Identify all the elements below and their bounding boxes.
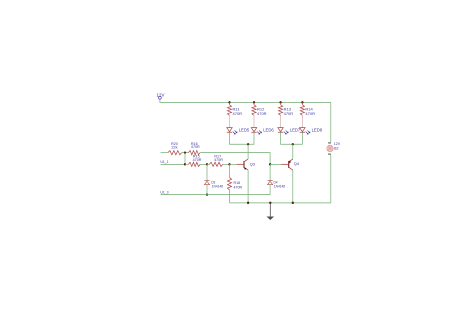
wire rail to resistor R13 (280, 102, 282, 104)
wire pair tap down to Q4 collector (292, 144, 294, 159)
node D3 top junction (206, 163, 208, 165)
svg-text:B2: B2 (334, 146, 338, 150)
node R20/R16/vertical junction (184, 151, 186, 153)
wire vertical joining row1 and row2 (184, 153, 186, 165)
svg-text:470R: 470R (193, 158, 202, 162)
svg-text:470R: 470R (305, 111, 315, 116)
node Q4 emitter on bottom rail (292, 202, 294, 204)
svg-text:470R: 470R (191, 145, 200, 149)
svg-text:LED5: LED5 (239, 128, 250, 133)
wire R18 node to Q3 base (230, 163, 237, 165)
LED LED7 (278, 128, 301, 134)
svg-text:1N4148: 1N4148 (212, 185, 223, 189)
wire resistor R13 to LED7 (280, 115, 282, 127)
node +12V rail junction at R11 (228, 101, 230, 103)
svg-text:1N4148: 1N4148 (274, 184, 285, 188)
resistor R17 470R (209, 155, 223, 167)
resistor R13 470R (279, 105, 294, 116)
net U1_1 row1 stub (161, 152, 168, 154)
node +12V rail junction at R13 (279, 101, 281, 103)
resistor R12 470R (252, 105, 267, 116)
wire from lamp B2 to bottom rail (330, 155, 332, 203)
wire from +12V rail to lamp B2 (330, 102, 332, 142)
wire D3 anode to U1_3 row (206, 184, 208, 194)
wire +12V top rail (160, 101, 331, 103)
svg-text:470R: 470R (214, 158, 223, 162)
resistor R15 470R (188, 155, 201, 167)
svg-text:U1_1: U1_1 (160, 160, 168, 164)
svg-text:Q3: Q3 (250, 161, 256, 166)
wire R16 to Q4 base node (200, 153, 270, 165)
wire LED7/LED8 cathodes to Q4 collector (281, 132, 303, 144)
svg-text:LED7: LED7 (290, 128, 301, 133)
svg-text:LED8: LED8 (312, 128, 323, 133)
node D3 on U1_3 row (206, 193, 208, 195)
ground symbol (267, 203, 275, 220)
svg-text:470R: 470R (257, 111, 267, 116)
lamp B2 12V (327, 142, 341, 154)
power supply +12V symbol (157, 92, 165, 102)
wire Q4 emitter to bottom rail (292, 170, 294, 203)
wire rail to resistor R11 (229, 102, 231, 104)
svg-text:Q4: Q4 (294, 161, 300, 166)
LED LED8 (300, 128, 323, 134)
wire pair tap down to Q3 collector (247, 144, 249, 159)
resistor R18 470R (227, 177, 242, 190)
wire D3 node to R17 (207, 163, 209, 165)
LED LED5 (227, 128, 250, 134)
wire U1_1 input (161, 163, 185, 165)
wire resistor R12 to LED6 (253, 115, 255, 127)
node +12V rail junction at R14 (301, 101, 303, 103)
svg-text:LED6: LED6 (263, 128, 274, 133)
wire R18 to bottom rail (229, 190, 231, 203)
wire resistor R11 to LED5 (229, 115, 231, 127)
wire R18 node down to R18 (229, 164, 231, 177)
node Q3 emitter on bottom rail (247, 202, 249, 204)
wire to R15 (185, 163, 188, 165)
svg-text:470R: 470R (233, 111, 243, 116)
resistor R20 22k (168, 142, 182, 155)
wire rail to resistor R12 (253, 102, 255, 104)
node Q4 collector tap (292, 143, 294, 145)
svg-text:470R: 470R (284, 111, 294, 116)
diode D3 1N4148 (204, 180, 223, 188)
wire Q4 base node down to D4 (269, 164, 271, 180)
node Q4 base / D4 junction (269, 163, 271, 165)
wire Q3 base node down to D3 (206, 164, 208, 180)
wire Q4 base node to Q4 base (270, 163, 281, 165)
wire resistor R14 to LED8 (301, 115, 303, 127)
node ground junction on bottom rail (269, 202, 271, 204)
wire U1_3 row (161, 194, 271, 196)
wire LED5/LED6 cathodes to Q3 collector (230, 132, 255, 144)
node +12V rail junction at R12 (253, 101, 255, 103)
node R18 top junction (228, 163, 230, 165)
transistor Q4 (289, 159, 300, 170)
resistor R16 470R (188, 142, 200, 155)
wire R20 to R16 (182, 152, 189, 154)
transistor Q3 (244, 159, 256, 170)
diode D4 1N4148 (268, 180, 286, 188)
node Q3 collector tap (247, 143, 249, 145)
svg-text:R18: R18 (234, 181, 241, 185)
LED LED6 (251, 128, 274, 134)
svg-text:470R: 470R (234, 186, 243, 190)
node U1_1/R15 junction (184, 163, 186, 165)
resistor R11 470R (227, 105, 242, 116)
svg-text:U1_3: U1_3 (160, 190, 168, 194)
wire D4 anode down to U1_3 row (269, 184, 271, 194)
wire R15 to D3 node (200, 163, 207, 165)
svg-text:22k: 22k (172, 145, 178, 149)
wire Q3 emitter to bottom rail (247, 170, 249, 203)
wire ground bottom rail (230, 202, 331, 204)
wire R17 to R18 node (223, 163, 230, 165)
resistor R14 470R (300, 105, 315, 116)
wire rail to resistor R14 (301, 102, 303, 104)
